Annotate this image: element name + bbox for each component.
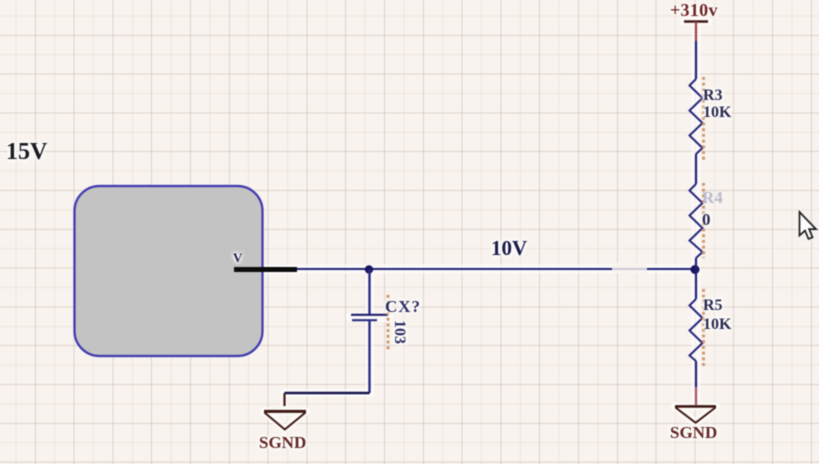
ground symbol SGND right — [675, 406, 716, 422]
ground pin stub left — [283, 393, 285, 406]
wire capacitor bottom lead — [368, 320, 370, 393]
capacitor designator CX? — [385, 298, 421, 315]
resistor value 0 (R4) — [702, 211, 711, 228]
resistor designator R4 (faint) — [702, 189, 723, 206]
junction at resistor divider — [691, 265, 700, 274]
component body U1 — [75, 186, 263, 356]
ground label SGND right — [670, 424, 717, 441]
wire junction to R5 — [695, 269, 697, 299]
wire net 10V: capacitor tap to divider junction — [369, 268, 695, 270]
wire R4 to junction — [695, 258, 697, 269]
junction at capacitor tap — [365, 265, 373, 273]
halo layer (video glow under ink) — [234, 22, 716, 430]
pin name V — [233, 251, 242, 264]
resistor value 10K (R5) — [703, 317, 731, 333]
resistor value 10K (R3) — [703, 105, 731, 121]
power port +310v bar — [684, 20, 708, 23]
wire +310v to R3 — [695, 41, 697, 79]
mouse cursor — [800, 212, 817, 239]
resistor R5 — [690, 299, 703, 361]
ground pin stub right — [695, 387, 697, 405]
resistor R3 — [690, 79, 703, 154]
resistor R4 — [690, 184, 703, 258]
resistor designator R5 — [703, 298, 723, 314]
wire R5 to ground — [695, 361, 697, 387]
highlight marker R5 — [702, 289, 705, 366]
pin V of U1 — [234, 267, 297, 272]
net label 10V — [491, 238, 527, 259]
capacitor value 103 (rotated) — [391, 320, 407, 344]
wire fade artifact — [612, 262, 647, 274]
ground label SGND left — [259, 434, 306, 451]
ground symbol SGND left — [264, 411, 306, 429]
capacitor CX? plates — [351, 315, 388, 320]
power port +310v pin — [695, 22, 697, 42]
highlight marker R3 — [702, 77, 705, 161]
wire net 10V: pin to capacitor tap — [297, 268, 369, 270]
power port label +310v — [670, 1, 718, 19]
wire R3 to R4 — [695, 154, 697, 184]
highlight marker CX? — [387, 295, 390, 351]
resistor designator R3 — [703, 88, 723, 104]
wire capacitor top lead — [368, 269, 370, 314]
text 15V — [6, 140, 47, 164]
highlight marker R4 — [702, 183, 705, 258]
wire to left ground — [285, 392, 370, 394]
